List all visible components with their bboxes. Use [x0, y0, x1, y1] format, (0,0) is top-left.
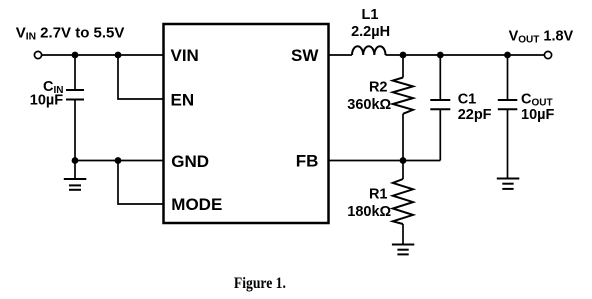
- wire SW rail to VOUT: [386, 54, 545, 56]
- wire GND rail: [75, 160, 164, 162]
- node junction COUT/SW: [504, 52, 511, 59]
- svg-text:MODE: MODE: [171, 195, 222, 214]
- svg-text:22pF: 22pF: [458, 107, 492, 123]
- svg-text:SW: SW: [291, 46, 319, 65]
- svg-text:FB: FB: [296, 151, 319, 170]
- svg-text:GND: GND: [171, 152, 209, 171]
- ground (COUT): [497, 179, 520, 189]
- node VOUT output terminal: [544, 51, 551, 58]
- wire FB rail: [329, 160, 441, 162]
- wire MODE connection: [118, 161, 164, 205]
- svg-text:EN: EN: [171, 90, 195, 109]
- wire EN connection: [118, 55, 164, 99]
- svg-text:C1: C1: [458, 92, 477, 108]
- capacitor CIN: [66, 55, 84, 161]
- svg-text:180kΩ: 180kΩ: [347, 204, 391, 220]
- svg-text:L1: L1: [362, 7, 379, 23]
- node junction CIN/GND: [72, 157, 79, 164]
- capacitor COUT: [498, 55, 518, 179]
- node junction MODE/GND: [115, 157, 122, 164]
- svg-text:10µF: 10µF: [521, 107, 554, 123]
- node VIN input terminal: [34, 51, 41, 58]
- svg-text:2.2µH: 2.2µH: [351, 24, 390, 40]
- svg-text:R2: R2: [369, 80, 388, 96]
- node junction C1/SW: [437, 52, 444, 59]
- svg-text:360kΩ: 360kΩ: [347, 97, 391, 113]
- node junction R2/SW: [400, 52, 407, 59]
- capacitor C1: [430, 55, 450, 161]
- ground (input): [64, 161, 87, 190]
- resistor R2: [393, 55, 413, 161]
- node junction CIN/VIN: [72, 52, 79, 59]
- svg-text:VIN: VIN: [171, 46, 199, 65]
- inductor L1: [352, 46, 386, 55]
- svg-text:10µF: 10µF: [30, 93, 63, 109]
- node junction R1/FB: [400, 157, 407, 164]
- op-amp U1 regulator IC body: [164, 24, 329, 223]
- svg-text:Figure 1.: Figure 1.: [234, 275, 286, 292]
- wire SW output: [329, 54, 353, 56]
- svg-text:VOUT 1.8V: VOUT 1.8V: [509, 29, 574, 46]
- svg-text:VIN 2.7V to 5.5V: VIN 2.7V to 5.5V: [16, 25, 125, 43]
- resistor R1: [393, 161, 413, 245]
- svg-text:R1: R1: [369, 186, 388, 202]
- wire VIN rail: [42, 54, 164, 56]
- node junction EN/VIN: [115, 52, 122, 59]
- ground (R1): [392, 245, 414, 255]
